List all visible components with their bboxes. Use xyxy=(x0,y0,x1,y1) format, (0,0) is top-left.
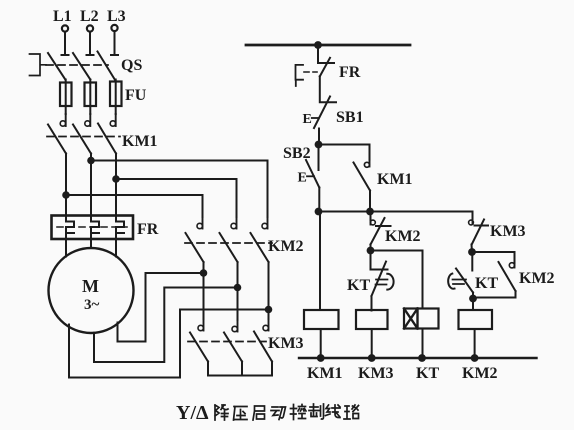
switch QS pole 1 blade xyxy=(48,53,65,80)
caption char qi xyxy=(253,406,265,420)
wire KM3 coil to rail xyxy=(371,329,373,358)
svg-text:KM3: KM3 xyxy=(268,335,304,352)
QS mechanical linkage dashed xyxy=(46,64,108,66)
wire fuse1 to KM1 xyxy=(65,80,67,115)
svg-text:KM1: KM1 xyxy=(122,133,158,150)
caption char lu xyxy=(344,405,359,419)
node pole3 feeder xyxy=(112,175,120,183)
FR heater pole1 xyxy=(66,216,74,240)
fuse FU pole 2 xyxy=(85,83,97,107)
QS operating handle xyxy=(30,54,47,76)
contactor KM2 pole3 fixed contact xyxy=(267,217,269,229)
contactor KM2 pole2 blade xyxy=(220,233,238,262)
FR release bracket xyxy=(296,65,304,86)
wire KM2 pole3 down to KM3 xyxy=(268,262,270,319)
svg-text:M: M xyxy=(82,276,99,296)
node KM1 aux bottom xyxy=(366,208,374,216)
svg-text:L2: L2 xyxy=(80,8,99,25)
contactor KM1 pole 3 fixed contact xyxy=(115,114,117,126)
wire KM2 NC to node xyxy=(370,245,372,251)
coil KT with X xyxy=(404,309,439,329)
svg-text:KM1: KM1 xyxy=(307,365,343,382)
wire FR to SB1 xyxy=(320,76,336,102)
caption char xian xyxy=(326,405,341,418)
svg-text:KM3: KM3 xyxy=(490,223,526,240)
node SB2/KM1 top xyxy=(315,141,323,149)
node KM2 pole1 / motor W2 xyxy=(200,269,208,277)
wire FR to motor U1 xyxy=(65,239,67,257)
wire KT coil to rail xyxy=(422,329,424,359)
svg-text:KM1: KM1 xyxy=(377,171,413,188)
svg-text:KM3: KM3 xyxy=(358,365,394,382)
wire KM2 pole1 down to KM3 xyxy=(203,262,205,319)
svg-text:FR: FR xyxy=(339,64,361,81)
KT NO blade xyxy=(456,269,473,293)
wire to KM1 coil xyxy=(319,212,321,311)
wire SB1 to node xyxy=(318,129,320,145)
wire KM2 coil to rail xyxy=(474,329,476,358)
control mid rail xyxy=(319,211,473,213)
svg-text:E: E xyxy=(298,171,307,186)
wire motor W2 delta loop xyxy=(118,273,204,342)
node KM3 coil xyxy=(368,354,376,362)
KT NO delay arc xyxy=(448,274,454,289)
node KM1 coil xyxy=(317,354,325,362)
caption char kong xyxy=(291,405,307,420)
node pole1 feeder xyxy=(62,191,70,199)
wire FR to motor V1 xyxy=(90,239,92,248)
caption char dong xyxy=(271,407,286,420)
coil KM2 xyxy=(459,310,493,329)
contactor KM2 pole1 fixed contact xyxy=(202,217,204,229)
wire SB2 to bottom node xyxy=(318,188,320,212)
wire KM3 NC to node xyxy=(471,245,474,253)
wire KM1 pole1 down xyxy=(65,154,67,216)
node KM2 coil xyxy=(471,354,479,362)
KM1 linkage dashed xyxy=(47,136,120,138)
node SB2 bottom xyxy=(315,208,323,216)
node KT coil xyxy=(418,354,426,362)
coil KM1 xyxy=(304,310,339,329)
button SB1 NC blade xyxy=(314,97,330,129)
wire motor V2 delta loop xyxy=(94,288,237,363)
wire KT NO to node xyxy=(472,293,474,299)
thermal relay FR box xyxy=(52,216,134,240)
node KM2 pole2 / motor V2 xyxy=(234,284,242,292)
contactor KM3 pole1 blade xyxy=(190,333,208,362)
wire KM1 pole3 down xyxy=(115,154,117,216)
wire KM2 NO down to node xyxy=(473,291,516,298)
svg-text:KM2: KM2 xyxy=(519,270,555,287)
wire node to KT NO contact xyxy=(471,252,473,271)
KT NC delay arc xyxy=(387,274,393,290)
terminal L3 xyxy=(111,25,117,31)
contactor KM3 pole1 fixed contact xyxy=(203,319,205,331)
wire node to SB2 xyxy=(318,145,320,171)
svg-text:Y/Δ: Y/Δ xyxy=(176,402,209,424)
KM1 aux fixed contact xyxy=(369,160,371,167)
KM2 NC seat xyxy=(376,225,391,227)
wire node to KT NC contact xyxy=(370,251,372,270)
control top rail xyxy=(246,44,410,47)
contactor KM1 pole 1 blade xyxy=(48,125,66,154)
contactor KM1 pole 2 blade xyxy=(73,125,91,154)
coil KM3 xyxy=(356,310,388,329)
svg-text:E: E xyxy=(303,112,312,127)
KT NC blade xyxy=(372,262,387,297)
KM2 NC blade xyxy=(371,218,385,245)
wire fuse2 to KM1 xyxy=(89,80,91,115)
wire motor U2 delta loop xyxy=(69,310,268,378)
FR heater pole3 xyxy=(116,216,124,240)
svg-text:KT: KT xyxy=(416,365,439,382)
wire L1 to QS xyxy=(62,32,69,55)
node KM2 pole3 / motor U2 xyxy=(265,306,273,314)
svg-text:KM2: KM2 xyxy=(268,238,304,255)
fuse FU pole 1 xyxy=(60,83,72,107)
FR heater pole2 xyxy=(91,216,99,240)
KM3 NC fixed contact xyxy=(472,220,474,225)
contactor KM2 pole1 blade xyxy=(186,233,204,262)
node rail/FR xyxy=(314,41,322,49)
wire feeder pole1 to KM2 pole1 xyxy=(66,195,203,217)
svg-text:SB1: SB1 xyxy=(336,109,364,126)
motor M xyxy=(49,248,134,333)
KM2 NO fixed contact xyxy=(514,263,516,268)
contactor KM3 pole3 blade xyxy=(254,332,272,362)
contactor KM2 pole2 fixed contact xyxy=(236,217,238,229)
terminal L1 xyxy=(62,25,68,31)
KM3 NC blade xyxy=(472,220,484,245)
KM3 star point bus xyxy=(208,362,272,376)
wire branch to KT coil xyxy=(371,251,423,309)
node pole2 feeder xyxy=(87,157,95,165)
svg-text:KT: KT xyxy=(475,275,498,292)
svg-text:QS: QS xyxy=(121,57,142,74)
wire KT NC to KM3 coil xyxy=(371,296,373,311)
contactor KM1 pole 1 fixed contact xyxy=(65,114,67,126)
wire node to KM2 coil xyxy=(472,299,474,311)
KM3 NC seat xyxy=(475,225,489,227)
KM1 aux blade xyxy=(354,163,371,191)
svg-text:KM2: KM2 xyxy=(385,228,421,245)
contactor KM3 pole3 fixed contact xyxy=(268,319,270,331)
wire feeder pole3 to KM2 pole2 xyxy=(116,179,237,217)
contactor KM1 pole 2 fixed contact xyxy=(89,114,91,126)
svg-text:KT: KT xyxy=(347,277,370,294)
switch QS pole 2 blade xyxy=(73,53,90,80)
caption char zhi xyxy=(309,404,324,419)
fuse FU pole 3 xyxy=(110,82,122,107)
wire KM1 aux down xyxy=(369,191,371,212)
FR heaters dashed link xyxy=(57,226,127,228)
node KT2 top xyxy=(468,248,476,256)
node KT branch xyxy=(367,247,375,255)
KM2 NC contact top wire xyxy=(370,212,372,221)
wire fuse3 to KM1 xyxy=(115,80,117,115)
node KM2 coil top xyxy=(469,295,477,303)
KM2 linkage dashed xyxy=(185,242,272,244)
svg-text:KM2: KM2 xyxy=(462,365,498,382)
KT NC delay lines xyxy=(376,280,388,285)
wire branch to KM2 NO xyxy=(472,252,515,263)
FR NC contact blade xyxy=(320,58,330,77)
wire L2 to QS xyxy=(87,32,94,55)
wire mid rail to KM3 NC xyxy=(472,212,474,220)
switch QS pole 3 blade xyxy=(98,52,115,80)
contactor KM2 pole3 blade xyxy=(251,233,269,262)
wire feeder pole2 to KM2 pole3 xyxy=(91,161,268,218)
wire KM2 pole2 down to KM3 xyxy=(237,262,239,320)
contactor KM3 pole2 fixed contact xyxy=(237,320,239,332)
svg-text:L3: L3 xyxy=(107,8,126,25)
KM3 linkage dashed xyxy=(188,341,266,343)
button SB2 NO blade xyxy=(306,160,319,188)
caption char ya xyxy=(234,407,248,421)
wire FR to motor W1 xyxy=(115,239,117,257)
caption char jiang xyxy=(215,405,228,420)
KM2 NO blade xyxy=(499,262,516,291)
contactor KM3 pole2 blade xyxy=(224,333,242,362)
KT NC seat xyxy=(372,269,388,271)
wire node to KM1 aux xyxy=(319,145,370,160)
svg-text:FU: FU xyxy=(125,87,147,104)
control bottom rail xyxy=(299,357,537,359)
terminal L2 xyxy=(87,25,93,31)
KM2 NC fixed contact xyxy=(370,220,372,225)
KT NO delay lines xyxy=(453,280,467,285)
svg-text:FR: FR xyxy=(137,221,159,238)
wire L3 to QS xyxy=(111,31,118,55)
FR release dashed xyxy=(304,71,317,73)
wire KM1 coil to rail xyxy=(320,329,322,358)
svg-text:L1: L1 xyxy=(53,8,72,25)
wire rail to FR contact xyxy=(318,45,334,63)
wire KM1 pole2 down xyxy=(90,154,92,216)
svg-text:3~: 3~ xyxy=(84,297,100,313)
contactor KM1 pole 3 blade xyxy=(98,124,116,154)
